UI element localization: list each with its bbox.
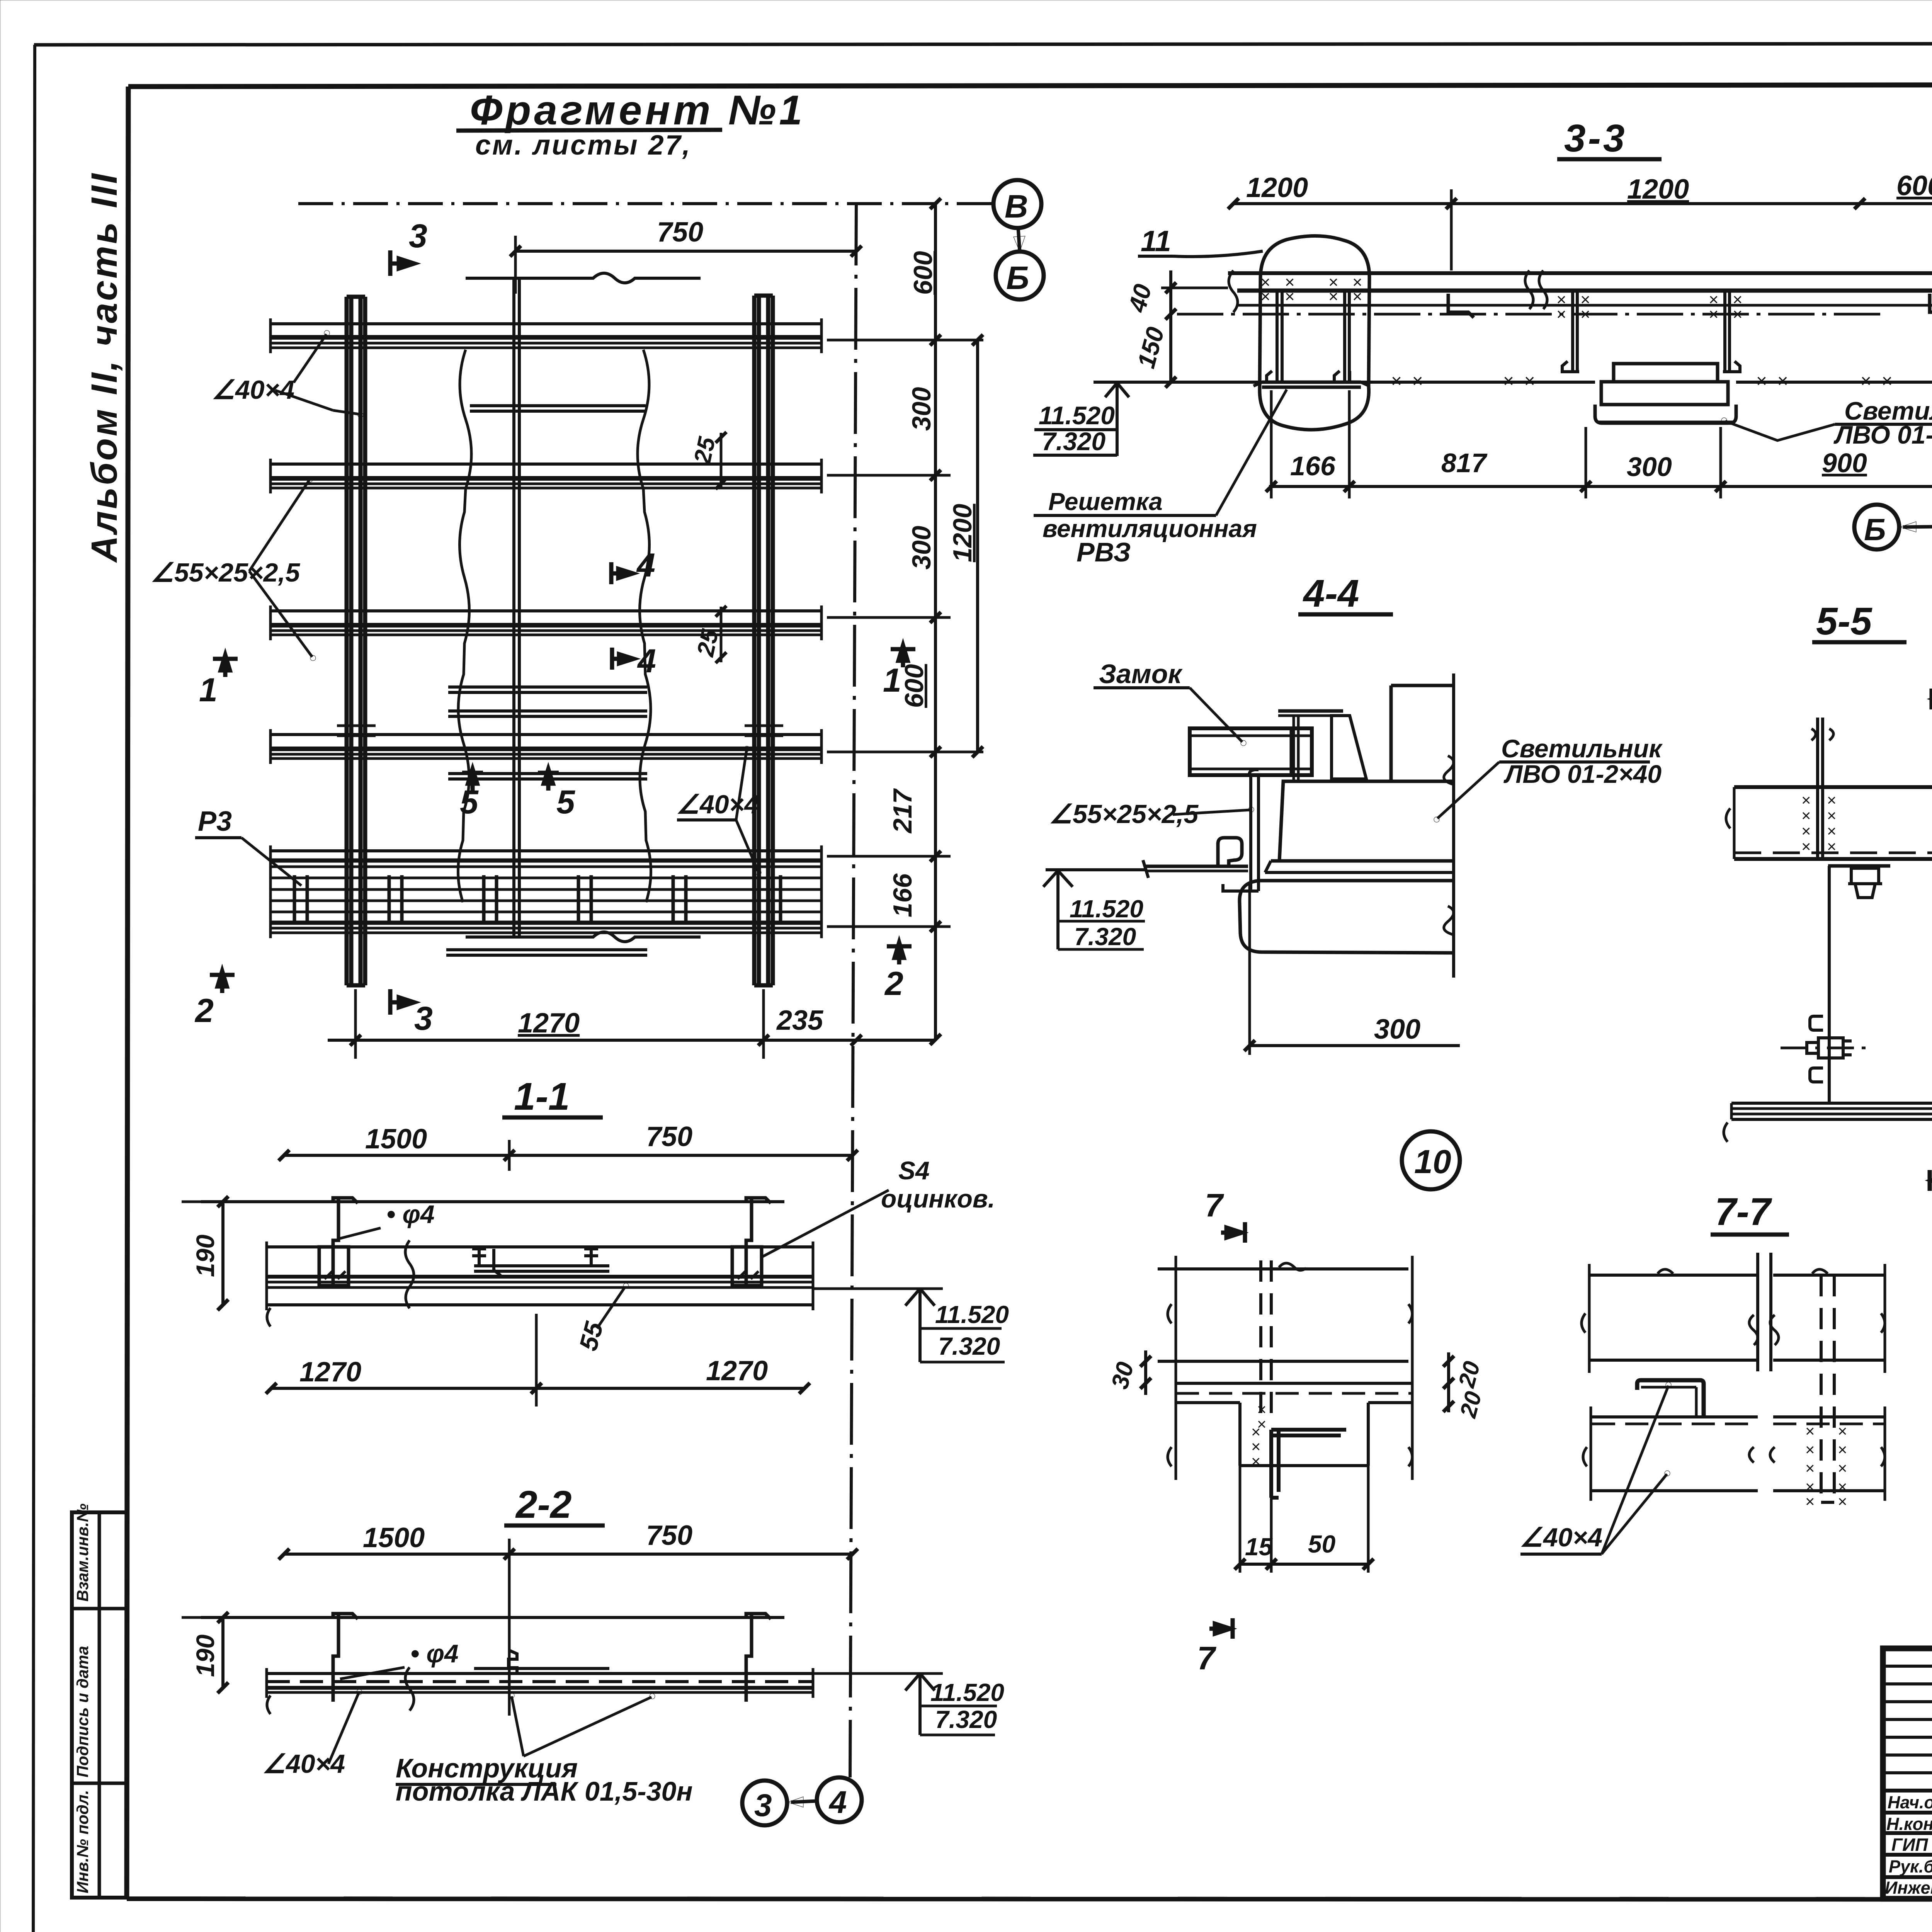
svg-text:1500: 1500 <box>365 1124 427 1155</box>
svg-text:1270: 1270 <box>299 1357 361 1388</box>
dim 40 150 chain <box>1169 270 1172 382</box>
bottom band 5-5 <box>1731 1102 1932 1105</box>
corner angle <box>1271 1430 1346 1498</box>
svg-text:25: 25 <box>689 434 721 466</box>
svg-text:оцинков.: оцинков. <box>881 1184 995 1213</box>
beam D <box>270 729 821 764</box>
beam R3 grille band <box>270 845 821 938</box>
fixture hanger right <box>1723 291 1726 371</box>
center panel piece <box>474 1266 609 1271</box>
ceiling band bottom lines <box>267 1275 813 1279</box>
svg-text:×: × <box>1328 287 1338 306</box>
arrow 4 to 3 <box>791 1801 817 1802</box>
section mark 6 top <box>1932 689 1932 709</box>
wedge gusset <box>1332 716 1366 779</box>
svg-text:750: 750 <box>646 1121 692 1152</box>
svg-text:190: 190 <box>191 1634 219 1677</box>
L bracket mid <box>1448 294 1474 318</box>
notch box <box>1238 1403 1242 1466</box>
central dashed hanger <box>1259 1260 1262 1423</box>
svg-text:Инв.№ подл.: Инв.№ подл. <box>73 1790 92 1893</box>
center clips <box>472 1249 501 1276</box>
svg-text:×–×: ×–× <box>1861 371 1893 391</box>
rail 1 (vertical channel) <box>347 297 365 985</box>
svg-text:ЛВО 01-2×40: ЛВО 01-2×40 <box>1833 420 1932 449</box>
section mark 1 right <box>891 645 915 667</box>
dim 190 left <box>221 1202 224 1305</box>
hanger right <box>746 1198 752 1286</box>
section mark 5 right <box>538 769 559 791</box>
svg-text:Инженер: Инженер <box>1885 1878 1932 1898</box>
svg-text:11.520: 11.520 <box>1070 895 1143 923</box>
dim 15 50 bottom <box>1239 1466 1242 1573</box>
arrow V2 to B2 <box>1903 527 1932 527</box>
svg-text:×: × <box>1733 305 1743 324</box>
circle 10 ref <box>1402 1131 1460 1189</box>
svg-text:300: 300 <box>1374 1014 1420 1045</box>
slab soffit line 2-2 <box>201 1616 784 1619</box>
paper edge left <box>33 45 35 1932</box>
frame bottom <box>127 1899 1932 1900</box>
grille plate in blob <box>1262 381 1361 384</box>
svg-text:600: 600 <box>1896 170 1932 201</box>
dim 30 left <box>1144 1350 1147 1395</box>
break marks band <box>405 1240 414 1308</box>
section mark 2 right <box>887 942 912 964</box>
center panel 2-2 <box>474 1668 609 1673</box>
lower band node10 <box>1176 1382 1412 1385</box>
sign table top rows <box>1883 1666 1932 1773</box>
svg-text:S4: S4 <box>898 1156 930 1185</box>
svg-text:Замок: Замок <box>1099 659 1183 689</box>
R3 grille verticals <box>294 875 781 925</box>
partial runner bottom <box>446 948 647 951</box>
dim line 1500 750 <box>284 1154 852 1157</box>
section mark 3 bottom <box>390 989 414 1015</box>
svg-text:7.320: 7.320 <box>935 1706 997 1733</box>
elevation mark 3-3 <box>1105 383 1129 397</box>
mid clip hooks <box>1810 1016 1823 1030</box>
right dim chain witness lines <box>827 340 983 927</box>
svg-text:∠40×4: ∠40×4 <box>212 375 294 405</box>
svg-text:150: 150 <box>1132 324 1170 371</box>
svg-text:3: 3 <box>414 1000 433 1037</box>
svg-text:×: × <box>1257 1400 1267 1418</box>
section mark 4 upper <box>611 562 633 584</box>
dim 750 top <box>515 250 856 253</box>
svg-text:7.320: 7.320 <box>1074 923 1136 951</box>
svg-text:×: × <box>1580 305 1590 324</box>
beam C <box>270 605 821 640</box>
svg-text:40: 40 <box>1123 281 1157 316</box>
svg-text:600: 600 <box>900 664 929 708</box>
circle B2 <box>1854 505 1899 549</box>
section mark 7 bottom <box>1209 1618 1233 1639</box>
fixture upper box 4-4 <box>1279 781 1454 861</box>
dim 300 <box>1248 882 1251 1055</box>
section mark 1 left <box>213 655 238 677</box>
blob hanger 1 <box>1276 291 1279 381</box>
ceiling band top <box>267 1245 813 1248</box>
svg-text:×–×: ×–× <box>1756 371 1788 391</box>
svg-text:1270: 1270 <box>518 1008 580 1039</box>
svg-text:300: 300 <box>907 526 936 570</box>
svg-text:7: 7 <box>1205 1187 1224 1223</box>
svg-text:1-1: 1-1 <box>514 1075 570 1118</box>
circle 3 bottom <box>742 1781 787 1825</box>
circle 4 bottom <box>817 1777 862 1822</box>
light fixture tray <box>1595 405 1736 423</box>
svg-text:ЛВО 01-2×40: ЛВО 01-2×40 <box>1503 760 1662 788</box>
svg-text:300: 300 <box>1627 452 1672 482</box>
svg-text:20: 20 <box>1453 1359 1485 1391</box>
witness verticals 7-7 bottom <box>1590 1406 1592 1501</box>
vertical grid line right of plan <box>850 204 856 1777</box>
section mark 2 left <box>210 971 235 993</box>
svg-text:×: × <box>1285 287 1295 306</box>
svg-text:600: 600 <box>908 251 938 295</box>
svg-text:2: 2 <box>194 992 214 1029</box>
svg-text:750: 750 <box>646 1520 692 1551</box>
dim 20 20 right <box>1447 1352 1450 1412</box>
svg-text:Светильник: Светильник <box>1501 734 1663 763</box>
title block outer box <box>1883 1648 1932 1899</box>
dim chain ticks <box>930 198 941 1045</box>
partial runner mid (5-5 zone upper) <box>448 685 647 689</box>
section mark 6 bottom <box>1930 1170 1932 1191</box>
svg-text:1200: 1200 <box>1246 172 1308 203</box>
angle 55x25 vertical <box>1249 777 1252 891</box>
dim line 1500 750 <box>284 1553 852 1556</box>
svg-text:×: × <box>1260 287 1270 306</box>
arrow V to B <box>1018 228 1020 252</box>
top dim line <box>1233 202 1932 205</box>
fixture hanger left <box>1571 291 1574 371</box>
svg-text:×–×: ×–× <box>1503 371 1535 391</box>
svg-text:7-7: 7-7 <box>1715 1190 1772 1233</box>
svg-text:1500: 1500 <box>363 1522 425 1553</box>
light fixture top box <box>1614 364 1718 382</box>
svg-text:×: × <box>1805 1440 1815 1459</box>
elevation mark 4-4 <box>1043 870 1145 887</box>
hanger left <box>333 1198 338 1286</box>
long angle leg <box>1828 866 1831 1104</box>
svg-text:5-5: 5-5 <box>1816 600 1872 643</box>
ceiling xx marks <box>1391 371 1893 391</box>
svg-text:11.520: 11.520 <box>935 1301 1009 1328</box>
dim 190 left 2-2 <box>221 1617 224 1688</box>
svg-text:5: 5 <box>460 784 479 821</box>
circle V <box>993 180 1041 228</box>
svg-text:×: × <box>1827 837 1837 855</box>
center runner verticals <box>512 277 515 937</box>
svg-text:3-3: 3-3 <box>1564 117 1627 160</box>
beam B <box>270 459 821 493</box>
svg-text:190: 190 <box>191 1235 219 1277</box>
wavy vertical break left <box>458 350 472 902</box>
dim chain line inner <box>934 204 937 1039</box>
J hook clip <box>1218 838 1242 866</box>
svg-text:235: 235 <box>776 1005 823 1036</box>
svg-text:Б: Б <box>1864 512 1886 547</box>
top dash-dot grid line <box>298 202 993 205</box>
center clip 2-2 <box>509 1651 517 1674</box>
ceiling line left part <box>1094 381 1595 384</box>
svg-text:потолка ЛАК 01,5-30н: потолка ЛАК 01,5-30н <box>396 1776 693 1806</box>
hanger rod 5-5 <box>1816 718 1819 859</box>
dim line 1270 1270 <box>271 1387 804 1390</box>
svg-text:50: 50 <box>1308 1530 1335 1558</box>
dash-dot reference line <box>1177 313 1886 316</box>
ceiling line right part <box>1736 381 1932 384</box>
blob hanger 2 <box>1343 291 1346 381</box>
witness verticals node10 <box>1175 1256 1177 1480</box>
beam A <box>270 318 821 353</box>
rail 1 splice break <box>337 726 376 736</box>
T hanger top <box>1278 709 1343 713</box>
bottom partial line with squiggle <box>466 932 701 942</box>
hanger bracket box right <box>732 1247 762 1286</box>
top band 7-7 <box>1590 1274 1758 1277</box>
svg-text:×: × <box>1352 287 1362 306</box>
section mark 5 left <box>462 769 483 791</box>
bottom dim line 1270/235 <box>328 1039 935 1042</box>
column above <box>1389 685 1393 781</box>
svg-text:Фрагмент №1: Фрагмент №1 <box>470 87 805 133</box>
light fixture body <box>1601 382 1728 405</box>
svg-text:В: В <box>1005 188 1028 224</box>
svg-text:×: × <box>1709 305 1719 324</box>
svg-text:∠55×25×2,5: ∠55×25×2,5 <box>151 558 300 587</box>
wavy vertical break right <box>638 350 651 902</box>
svg-text:×: × <box>1251 1452 1261 1470</box>
svg-text:7.320: 7.320 <box>1042 427 1105 456</box>
center break pair 7-7 <box>1756 1253 1759 1371</box>
svg-text:166: 166 <box>888 873 917 917</box>
svg-text:1: 1 <box>199 672 218 709</box>
svg-text:4: 4 <box>828 1785 847 1820</box>
bottom dims 166 817 300 900 <box>1269 485 1932 488</box>
svg-text:5: 5 <box>556 784 575 821</box>
elevation mark 2-2 <box>813 1672 943 1675</box>
slab soffit line <box>201 1200 784 1203</box>
section cut line right <box>1452 673 1455 978</box>
svg-text:750: 750 <box>657 217 703 248</box>
svg-text:∠40×4: ∠40×4 <box>1520 1523 1602 1552</box>
section mark 3 top <box>390 250 414 276</box>
svg-text:1: 1 <box>883 662 901 699</box>
rail 2 (vertical channel) <box>754 296 773 985</box>
svg-text:Б: Б <box>1006 260 1029 296</box>
svg-text:2-2: 2-2 <box>515 1483 572 1526</box>
svg-text:Нач.отд.: Нач.отд. <box>1888 1793 1932 1812</box>
x marks column <box>1251 1400 1267 1470</box>
svg-text:1200: 1200 <box>1627 174 1689 205</box>
svg-text:Р3: Р3 <box>198 806 232 837</box>
L bracket right <box>1930 294 1932 318</box>
hanger bracket box left <box>319 1247 349 1286</box>
beam left break <box>1229 270 1238 312</box>
svg-text:3: 3 <box>409 218 427 255</box>
svg-text:4: 4 <box>637 643 656 680</box>
section mark 4 lower <box>612 648 634 670</box>
svg-text:×: × <box>1805 1459 1815 1477</box>
svg-text:• φ4: • φ4 <box>410 1639 459 1668</box>
main beam 3-3 <box>1228 271 1932 275</box>
svg-text:3: 3 <box>754 1788 772 1823</box>
outer chain 1200 line <box>976 340 979 752</box>
lock channel <box>1190 728 1312 775</box>
svg-text:Взам.инв.№: Взам.инв.№ <box>73 1503 92 1602</box>
svg-text:20: 20 <box>1455 1389 1486 1421</box>
partial runner top middle <box>470 404 646 407</box>
svg-text:• φ4: • φ4 <box>386 1200 435 1228</box>
svg-text:15: 15 <box>1245 1533 1273 1561</box>
svg-text:×: × <box>1805 1492 1815 1510</box>
svg-text:×: × <box>1801 837 1811 855</box>
svg-text:4-4: 4-4 <box>1303 572 1359 615</box>
svg-text:РВЗ: РВЗ <box>1077 537 1131 567</box>
frame top <box>128 84 1932 87</box>
svg-text:Рук.бр.: Рук.бр. <box>1889 1857 1932 1876</box>
svg-text:166: 166 <box>1290 451 1336 481</box>
dashed hanger 7-7 <box>1820 1275 1823 1502</box>
svg-text:900: 900 <box>1822 448 1867 478</box>
sign rows <box>1883 1791 1932 1877</box>
beam mid break <box>1525 270 1547 309</box>
svg-text:1270: 1270 <box>706 1355 768 1386</box>
svg-text:2: 2 <box>884 965 903 1002</box>
ceiling panel 4-4 <box>1271 859 1454 863</box>
bolt cross <box>1781 1047 1873 1049</box>
svg-text:300: 300 <box>907 387 936 431</box>
svg-text:вентиляционная: вентиляционная <box>1043 515 1257 543</box>
svg-text:Н.контр.: Н.контр. <box>1886 1814 1932 1834</box>
stamp cells box <box>72 1512 127 1898</box>
svg-text:7.320: 7.320 <box>938 1332 1000 1360</box>
partial runner mid (5-5 zone lower) <box>448 709 647 713</box>
witness verticals 7-7 top <box>1588 1264 1591 1373</box>
svg-text:217: 217 <box>888 788 917 834</box>
svg-text:4: 4 <box>636 547 655 584</box>
top beam 5-5 <box>1734 785 1932 789</box>
svg-text:11.520: 11.520 <box>1039 401 1115 430</box>
svg-text:11.520: 11.520 <box>930 1679 1004 1706</box>
top band node10 <box>1158 1267 1408 1270</box>
detail blob outline <box>1260 236 1369 430</box>
svg-text:30: 30 <box>1106 1359 1139 1392</box>
svg-text:×–×: ×–× <box>1391 371 1423 391</box>
lower band 7-7 <box>1592 1415 1758 1418</box>
hanger right 2-2 <box>746 1614 752 1702</box>
svg-text:∠40×4: ∠40×4 <box>676 790 759 819</box>
svg-text:10: 10 <box>1414 1143 1451 1180</box>
svg-text:×: × <box>1838 1459 1847 1477</box>
svg-text:ГИП: ГИП <box>1891 1835 1928 1855</box>
svg-text:817: 817 <box>1441 448 1488 478</box>
svg-text:см. листы 27,: см. листы 27, <box>475 130 692 161</box>
frame left <box>127 87 128 1899</box>
top partial line with squiggle <box>466 273 701 283</box>
partial runner 5 line <box>448 772 647 775</box>
svg-text:Подпись и дата: Подпись и дата <box>73 1646 92 1777</box>
svg-text:55: 55 <box>573 1318 609 1354</box>
paper edge top <box>34 43 1932 45</box>
runner rail left <box>1146 865 1248 868</box>
hanger left 2-2 <box>333 1614 338 1702</box>
svg-text:Альбом II, часть III: Альбом II, часть III <box>84 172 125 563</box>
svg-text:×: × <box>1838 1440 1847 1459</box>
svg-text:7: 7 <box>1197 1640 1216 1676</box>
ceiling band 2-2 <box>267 1672 813 1675</box>
svg-text:×: × <box>1556 305 1566 324</box>
circle B <box>996 252 1044 299</box>
break marks 2-2 <box>405 1667 414 1711</box>
rail 2 splice break <box>745 726 783 736</box>
elevation mark 1-1 <box>813 1287 943 1290</box>
svg-text:11: 11 <box>1141 225 1171 258</box>
diffuser box 4-4 <box>1240 881 1454 953</box>
svg-text:1200: 1200 <box>948 504 977 562</box>
svg-text:×: × <box>1838 1492 1847 1510</box>
bolt below beam <box>1828 864 1890 868</box>
svg-text:Решетка: Решетка <box>1048 488 1163 515</box>
Z angle on lower band <box>1637 1380 1704 1415</box>
